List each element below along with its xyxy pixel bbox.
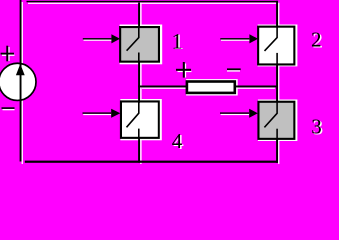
svg-text:2: 2 [311,28,322,52]
svg-text:3: 3 [311,115,322,139]
svg-text:1: 1 [172,28,183,53]
svg-text:4: 4 [172,129,183,153]
